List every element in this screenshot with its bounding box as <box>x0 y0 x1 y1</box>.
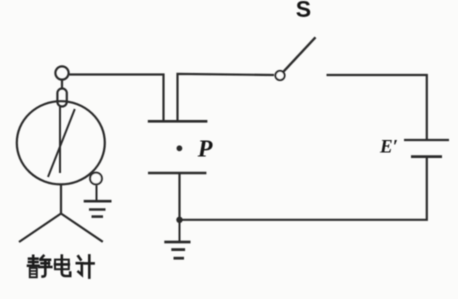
svg-text:S: S <box>296 0 311 22</box>
svg-text:P: P <box>197 137 213 163</box>
svg-text:E′: E′ <box>379 137 398 158</box>
